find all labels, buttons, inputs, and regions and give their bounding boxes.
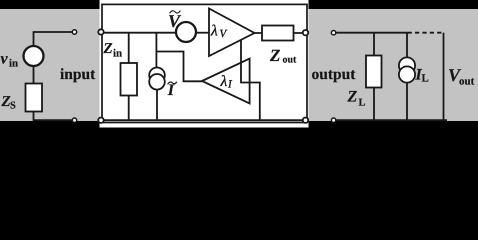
svg-text:L: L — [359, 98, 366, 109]
svg-text:I: I — [167, 82, 175, 99]
svg-text:input: input — [60, 66, 96, 83]
svg-text:Z: Z — [347, 89, 358, 106]
svg-text:v: v — [1, 51, 9, 68]
svg-text:in: in — [113, 48, 122, 60]
svg-text:out: out — [459, 76, 475, 88]
svg-text:λ: λ — [220, 73, 228, 90]
svg-text:V: V — [168, 11, 182, 31]
svg-text:L: L — [422, 73, 429, 85]
svg-text:in: in — [9, 58, 18, 70]
svg-text:output: output — [312, 66, 357, 83]
svg-text:S: S — [10, 101, 16, 112]
svg-text:Z: Z — [269, 46, 280, 65]
svg-text:out: out — [283, 55, 298, 66]
svg-text:λ: λ — [210, 23, 218, 40]
svg-text:Z: Z — [103, 41, 113, 57]
